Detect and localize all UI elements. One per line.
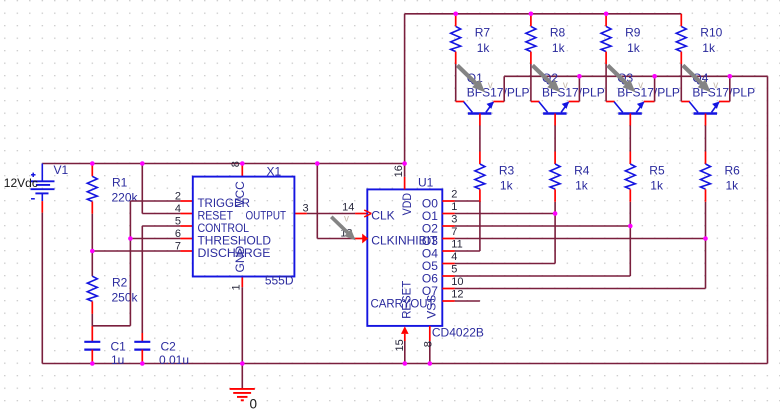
wire carryout stub pin12 [455,300,480,302]
svg-text:2: 2 [175,191,181,203]
wire O2/O6 to R5 [455,202,631,276]
svg-text:R10: R10 [700,26,722,40]
svg-text:4: 4 [175,203,181,215]
svg-text:250k: 250k [112,290,139,304]
resistor R6 1k [701,163,741,201]
junction dots emitter bus [577,74,732,79]
wire discharge pin7 [92,250,193,252]
svg-text:OUTPUT: OUTPUT [246,208,287,222]
svg-text:VCC: VCC [233,181,247,207]
svg-text:CD4022B: CD4022B [432,326,484,340]
svg-text:0: 0 [250,397,258,412]
wire R7 to Q1 collector [456,64,465,102]
svg-text:CLK: CLK [371,208,394,222]
wire R9 to Q3 collector [606,64,615,102]
svg-text:15: 15 [394,339,406,351]
resistor R10 1k [676,14,722,64]
capacitor C2 0.01u [134,333,189,367]
svg-text:1u: 1u [111,353,124,367]
wire Q3 base to R5 [629,126,631,165]
svg-text:8: 8 [230,161,242,167]
wire threshold pin6 [130,238,192,240]
cursor arrow at Q1 [457,65,485,92]
wire +12V mid rail [42,163,404,165]
svg-text:R5: R5 [649,163,665,177]
junction dots top rail [453,12,608,17]
svg-text:C1: C1 [111,339,127,353]
svg-text:R8: R8 [550,26,566,40]
svg-text:R7: R7 [475,26,491,40]
svg-text:X1: X1 [267,165,282,179]
ground 0 [230,389,257,412]
svg-text:14: 14 [342,201,354,213]
svg-text:1k: 1k [575,178,589,192]
svg-text:555D: 555D [265,273,294,287]
resistor R1 220k [87,164,138,277]
svg-text:6: 6 [175,228,181,240]
svg-text:RESET: RESET [399,280,413,319]
junction dots mid rail [90,161,407,166]
svg-text:1k: 1k [552,41,566,55]
svg-text:10: 10 [451,276,463,288]
svg-text:1: 1 [231,284,243,290]
transistor Q4 BFS17/PLP [689,71,755,126]
svg-text:7: 7 [175,241,181,253]
capacitor C1 1u [84,339,126,367]
svg-text:VSS: VSS [425,295,439,319]
U1 VSS pin8 stub [423,326,435,364]
svg-text:12: 12 [451,288,463,300]
wire Q2 base to R4 [554,126,556,165]
IC U1 CD4022B counter [367,175,484,339]
svg-text:1k: 1k [477,41,491,55]
svg-text:8: 8 [423,341,435,347]
svg-text:5: 5 [451,263,457,275]
svg-text:220k: 220k [112,190,139,204]
small v artifact near CLK [344,214,349,225]
U1 pin14 CLK arrow [342,201,371,217]
resistor R7 1k [451,14,491,64]
wire emitter bus [504,76,767,363]
wire top rail VDD [405,14,682,177]
wire trigger pin2 [130,200,192,202]
U1 pin13 CLKINHIBIT arrow [340,228,368,244]
wire O0/O4 to R3 [455,201,480,251]
svg-text:7: 7 [451,226,457,238]
cursor arrow at Q2 [533,65,561,92]
wire reset pin4 to VCC [142,164,193,214]
wire VDD to CLKINHIBIT pin13 [317,164,362,239]
svg-text:3: 3 [451,213,457,225]
svg-text:GND: GND [233,245,247,272]
svg-text:V1: V1 [54,163,69,177]
wire control pin5 to C2 [142,226,193,333]
junction dots left column [90,236,133,253]
transistor Q1 BFS17/PLP [464,71,530,126]
svg-text:U1: U1 [418,175,434,189]
wire Q1 emitter to bus [493,76,504,101]
cursor arrow at Q3 [608,65,636,92]
resistor R4 1k [550,163,590,201]
svg-text:R6: R6 [725,163,741,177]
resistor R8 1k [526,14,566,64]
svg-text:R2: R2 [112,276,128,290]
wire Q2 emitter to bus [569,76,580,101]
555 GND pin1 stub and wire to ground [241,277,243,389]
svg-text:R9: R9 [625,26,641,40]
svg-text:2: 2 [451,188,457,200]
transistor Q2 BFS17/PLP [539,71,605,126]
wire R10 to Q4 collector [681,64,690,102]
junction dots bottom rail [90,361,432,366]
svg-text:v: v [344,214,349,225]
svg-text:VDD: VDD [400,193,414,216]
voltage source V1 12Vdc [4,163,69,213]
wire bottom ground rail [42,213,767,364]
svg-text:v: v [713,80,718,91]
transistor Q3 BFS17/PLP [614,71,680,126]
wire Q3 emitter to bus [644,76,655,101]
junction dots output rows [553,211,708,241]
555 pin numbers [175,161,309,290]
wire R2/C1 junction to trigger-threshold column [92,201,130,326]
cursor arrow at Q4 [683,65,711,92]
svg-text:v: v [638,80,643,91]
555 VCC pin8 stub [241,164,243,177]
svg-text:v: v [488,80,493,91]
svg-text:R3: R3 [499,163,515,177]
resistor R3 1k [475,163,515,201]
resistor R9 1k [601,14,641,64]
svg-text:11: 11 [451,238,462,250]
IC X1 555D timer [193,165,295,288]
wire Q4 base to R6 [705,126,707,165]
svg-text:12Vdc: 12Vdc [4,176,38,190]
resistor R5 1k [625,163,665,201]
wire Q4 emitter to bus [719,76,730,101]
svg-text:C2: C2 [161,339,177,353]
svg-text:5: 5 [175,216,181,228]
svg-text:0.01u: 0.01u [159,353,189,367]
cursor arrow at CLK wire [331,217,355,241]
svg-text:v: v [563,80,568,91]
wire Q1 base to R3 [479,126,481,165]
U1 output pin stubs and numbers [442,188,463,301]
svg-text:1k: 1k [500,178,514,192]
svg-text:1k: 1k [702,41,716,55]
svg-text:1k: 1k [627,41,641,55]
svg-text:3: 3 [303,203,309,215]
svg-text:4: 4 [451,251,457,263]
wire output pin3 to CLK [294,213,367,215]
resistor R2 250k [87,276,138,342]
svg-text:1k: 1k [650,178,664,192]
svg-text:R4: R4 [574,163,590,177]
U1 RESET pin15 stub [394,326,408,363]
svg-text:R1: R1 [112,176,128,190]
svg-text:1: 1 [451,201,457,213]
svg-text:1k: 1k [726,178,740,192]
wire O3/O7 to R6 [455,202,706,289]
U1 VDD pin16 stub [393,165,405,189]
wire R8 to Q2 collector [531,64,540,102]
svg-text:16: 16 [393,165,405,177]
wire O1/O5 to R4 [455,202,555,264]
